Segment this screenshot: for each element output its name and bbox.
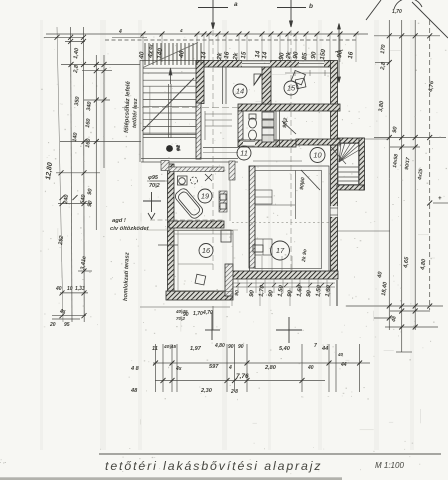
svg-text:85: 85 [301,52,309,60]
svg-text:: ,.: : ,. [0,459,7,465]
svg-text:19: 19 [201,192,210,201]
svg-text:340: 340 [86,100,93,111]
svg-text:4: 4 [179,28,183,33]
svg-text:90: 90 [238,344,244,350]
svg-text:48: 48 [130,388,138,394]
svg-text:597: 597 [209,364,219,370]
svg-text:16: 16 [347,51,355,59]
svg-text:civ öltözködet: civ öltözködet [110,226,150,232]
svg-text:agd !: agd ! [112,218,126,224]
svg-text:90: 90 [234,290,241,296]
svg-text:350: 350 [74,95,81,106]
svg-text:44: 44 [340,362,347,368]
svg-text:17: 17 [276,246,285,255]
svg-text:1,97: 1,97 [190,346,202,352]
svg-text:160: 160 [85,137,92,148]
svg-text:2,30: 2,30 [200,388,213,394]
svg-text:4: 4 [228,365,232,371]
svg-text:4,70: 4,70 [202,310,213,316]
svg-text:2k: 2k [232,52,240,61]
svg-text:2,8: 2,8 [73,64,80,74]
svg-text:14: 14 [200,51,208,59]
svg-text:7,76: 7,76 [236,373,249,380]
svg-text:20: 20 [49,322,56,328]
svg-text:+: + [438,196,442,202]
svg-text:11: 11 [152,346,158,352]
svg-text:140: 140 [72,131,79,142]
svg-text:170: 170 [380,43,387,54]
svg-text:1,33: 1,33 [75,286,85,292]
svg-text:4: 4 [118,29,122,35]
svg-text:90: 90 [228,344,234,350]
svg-text:7: 7 [314,343,317,349]
svg-text:14: 14 [261,51,269,59]
svg-text:11: 11 [240,149,248,158]
svg-text:2,8: 2,8 [380,61,387,71]
svg-text:5,40: 5,40 [279,346,291,352]
svg-text:a: a [234,1,238,8]
svg-text:4x: 4x [147,50,155,59]
svg-text:40: 40 [178,50,186,59]
svg-text:90: 90 [336,50,344,58]
svg-text:14: 14 [236,87,244,96]
svg-text:M 1:100: M 1:100 [375,461,404,470]
svg-text:90|2: 90|2 [282,117,289,128]
svg-text:15: 15 [287,84,296,93]
svg-text:40: 40 [55,286,62,292]
svg-text:1,70: 1,70 [193,311,203,317]
svg-text:tetőtéri lakásbővítési alapraj: tetőtéri lakásbővítési alaprajz [105,459,322,473]
svg-text:40: 40 [307,365,314,371]
svg-text:10: 10 [67,286,73,292]
svg-text:40|45: 40|45 [175,309,188,314]
svg-text:16: 16 [202,246,211,255]
svg-text:b: b [309,3,313,10]
svg-text:90: 90 [292,51,300,59]
svg-text:70|2: 70|2 [149,183,160,189]
svg-text:40|45: 40|45 [163,344,176,350]
svg-text:4x: 4x [59,309,66,315]
svg-text:140: 140 [156,47,164,59]
svg-text:φ95: φ95 [148,175,159,181]
svg-text:90: 90 [310,51,318,59]
svg-text:4x: 4x [175,366,182,372]
svg-text:48: 48 [391,316,398,323]
svg-text:15: 15 [240,51,248,59]
svg-text:95: 95 [64,322,70,328]
svg-text:tetőtér lesz: tetőtér lesz [132,98,139,128]
svg-text:1,70: 1,70 [392,9,402,15]
svg-text:44: 44 [321,346,329,352]
svg-text:2 8: 2 8 [230,389,238,395]
svg-text:160: 160 [85,117,92,128]
